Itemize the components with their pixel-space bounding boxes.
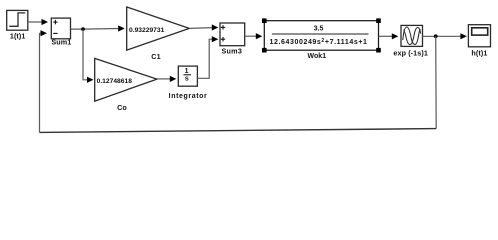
wire Wok1 to exp delay	[379, 33, 399, 39]
svg-text:1(t)1: 1(t)1	[10, 32, 26, 41]
junction node before Scope	[434, 34, 438, 38]
wire Integrator to Sum3	[197, 36, 218, 78]
wire Sum1 to C1	[71, 25, 125, 31]
transfer function block Wok1	[264, 21, 378, 51]
wire Co to Integrator	[157, 76, 176, 82]
selection handle top-left	[262, 18, 267, 23]
svg-text:0.93229731: 0.93229731	[129, 27, 165, 34]
feedback wire into Sum1 minus	[40, 30, 48, 36]
step source block 1(t)1	[7, 10, 28, 30]
feedback wire bottom	[40, 129, 437, 133]
svg-text:Sum1: Sum1	[51, 38, 71, 47]
wire step to Sum1	[28, 19, 48, 25]
selection handle top-right	[376, 18, 381, 23]
svg-text:12.64300249s2+7.1114s+1: 12.64300249s2+7.1114s+1	[269, 38, 367, 46]
wire Sum3 to Wok1	[245, 33, 263, 39]
svg-text:C1: C1	[151, 52, 160, 61]
sum block Sum1	[51, 18, 70, 39]
sum block Sum3	[220, 23, 245, 46]
feedback wire up left side	[39, 33, 41, 132]
selection handle bottom-right	[376, 48, 381, 53]
svg-text:Wok1: Wok1	[307, 53, 326, 60]
transport delay block exp (-1s)1	[401, 25, 423, 46]
svg-text:3.5: 3.5	[314, 25, 324, 32]
wire C1 to Sum3	[189, 24, 218, 30]
svg-text:Co: Co	[117, 103, 127, 112]
scope block h(t)1	[468, 25, 490, 47]
junction node after Sum1	[81, 27, 85, 31]
wire junction down to Co	[83, 29, 94, 83]
wire exp to Scope	[423, 33, 467, 39]
svg-text:s: s	[185, 75, 189, 82]
selection handle bottom-left	[262, 48, 267, 53]
feedback wire down from junction	[435, 36, 438, 128]
svg-text:0.12748618: 0.12748618	[97, 78, 133, 85]
svg-text:exp (-1s)1: exp (-1s)1	[393, 48, 428, 57]
integrator block	[178, 66, 197, 86]
svg-text:h(t)1: h(t)1	[471, 48, 487, 57]
gain block C1	[127, 7, 190, 50]
svg-text:Integrator: Integrator	[169, 93, 208, 100]
gain block Co	[95, 58, 157, 101]
svg-text:Sum3: Sum3	[222, 47, 243, 56]
svg-text:1: 1	[185, 68, 189, 75]
